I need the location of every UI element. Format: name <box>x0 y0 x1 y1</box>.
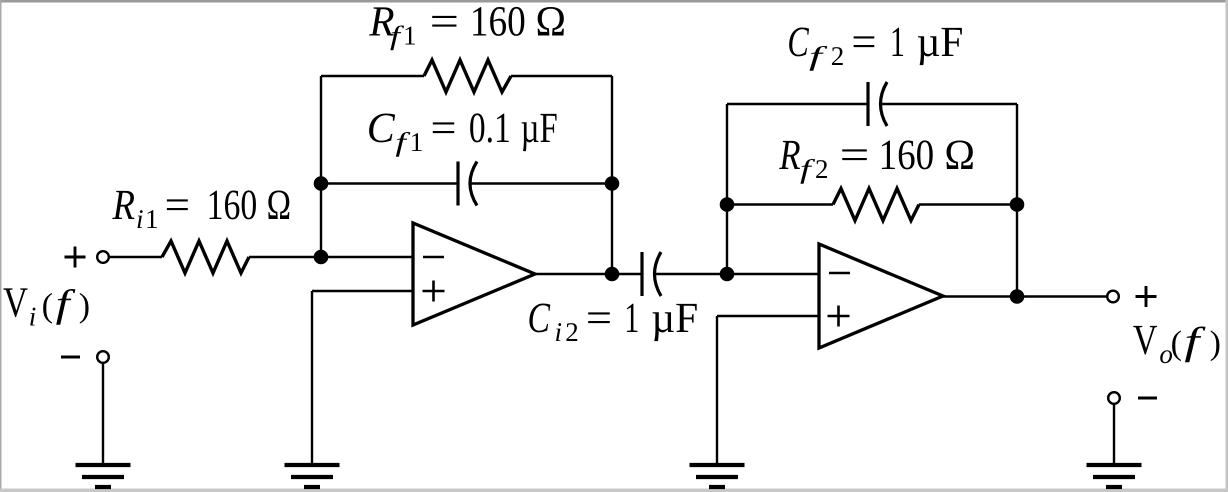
svg-text:=: = <box>165 182 190 229</box>
svg-text:=: = <box>851 19 876 66</box>
svg-text:1: 1 <box>145 204 159 234</box>
label Ci2 = 1 uF <box>528 295 699 347</box>
svg-text:(: ( <box>42 288 53 325</box>
terminal circle output minus <box>1108 392 1120 404</box>
svg-text:2: 2 <box>815 154 829 184</box>
wire input rail to op-amp <box>249 256 414 258</box>
terminal circle input minus <box>97 351 109 363</box>
wire feedback1 mid right segment <box>471 182 613 184</box>
svg-text:µF: µF <box>651 295 698 342</box>
wire feedback2 mid left segment <box>727 203 833 205</box>
label Rf1 = 160 Ohm <box>368 0 566 51</box>
terminal circle input plus <box>97 251 109 263</box>
op-amp U2 <box>819 244 943 348</box>
wire feedback1 top left segment <box>321 75 424 77</box>
wire Ci2 to op2 <box>655 273 819 275</box>
svg-text:V: V <box>3 280 28 327</box>
node junction dot G (feedback2 right mid) <box>1010 197 1025 212</box>
svg-text:µF: µF <box>521 105 558 152</box>
wire feedback1 right vertical <box>611 76 613 274</box>
svg-text:i: i <box>29 302 37 332</box>
label Cf1 = 0.1 uF <box>367 105 558 157</box>
node junction dot A (feedback1 left mid) <box>314 176 329 191</box>
ground G2 (op1 noninverting) <box>285 465 340 487</box>
svg-text:1: 1 <box>403 21 417 51</box>
border frame bottom <box>0 489 1228 492</box>
wire input minus stub <box>102 364 104 464</box>
wire feedback2 top left segment <box>727 103 868 105</box>
svg-text:=: = <box>430 0 459 46</box>
ground G3 (op2 noninverting) <box>690 465 745 487</box>
wire feedback2 mid right segment <box>919 203 1017 205</box>
node junction dot F (op2 inverting input rail) <box>720 267 735 282</box>
terminal circle output plus <box>1107 291 1119 303</box>
wire op2 noninverting vertical to ground <box>716 316 718 464</box>
wire op2 noninverting input horizontal <box>717 315 819 317</box>
ground G4 (output) <box>1087 465 1142 487</box>
label Cf2 = 1 uF <box>787 19 963 71</box>
wire feedback2 top right segment <box>881 103 1017 105</box>
op-amp U1 minus sign <box>423 256 444 259</box>
svg-text:C: C <box>367 105 396 152</box>
wire op2 output rail <box>943 295 1107 297</box>
svg-text:0.1: 0.1 <box>469 105 511 152</box>
svg-text:Ω: Ω <box>944 132 975 179</box>
border frame top <box>0 0 1228 3</box>
svg-text:Ω: Ω <box>267 182 291 229</box>
node junction dot D (op1 output) <box>605 267 620 282</box>
capacitor Cf1 right curved plate <box>470 162 477 206</box>
svg-text:i: i <box>136 204 144 234</box>
capacitor Cf2 left plate <box>866 82 869 126</box>
svg-text:C: C <box>528 295 552 342</box>
svg-text:R: R <box>112 182 135 229</box>
svg-text:V: V <box>1133 317 1158 364</box>
resistor Rf1 <box>424 60 511 92</box>
wire feedback2 right vertical <box>1016 104 1018 297</box>
svg-text:=: = <box>840 132 870 179</box>
wire feedback1 top right segment <box>511 75 612 77</box>
op-amp U2 minus sign <box>829 272 850 275</box>
svg-text:=: = <box>431 105 457 152</box>
op-amp U1 <box>413 223 535 325</box>
svg-text:(: ( <box>1171 325 1182 362</box>
op-amp U1 plus sign <box>423 281 445 302</box>
wire op1 noninverting input horizontal <box>312 290 414 292</box>
capacitor Ci2 right curved plate <box>655 252 662 296</box>
svg-text:160: 160 <box>207 182 258 229</box>
capacitor Cf1 left plate <box>456 162 459 206</box>
border frame right <box>1226 0 1228 492</box>
svg-text:R: R <box>779 132 801 179</box>
svg-text:C: C <box>787 19 809 66</box>
svg-text:1: 1 <box>890 19 905 66</box>
svg-text:1: 1 <box>410 127 424 157</box>
wire input rail left <box>110 256 163 258</box>
wire output minus stub <box>1113 405 1115 464</box>
wire op1 output rail <box>535 273 642 275</box>
resistor Ri1 <box>162 241 249 273</box>
label Ri1 = 160 Ohm <box>112 182 291 234</box>
label Rf2 = 160 Ohm <box>779 132 975 184</box>
svg-text:): ) <box>79 288 90 325</box>
svg-text:1: 1 <box>624 295 639 342</box>
input plus sign <box>65 247 86 268</box>
capacitor Ci2 left plate <box>640 252 643 296</box>
svg-text:160: 160 <box>879 132 935 179</box>
output plus sign <box>1136 286 1157 307</box>
svg-text:=: = <box>586 295 612 342</box>
capacitor Cf2 right curved plate <box>881 82 888 126</box>
op-amp U2 plus sign <box>828 306 850 327</box>
svg-text:2: 2 <box>831 41 845 71</box>
svg-text:Ω: Ω <box>536 0 567 46</box>
output minus sign <box>1138 397 1157 400</box>
wire op1 noninverting vertical to ground <box>311 291 313 464</box>
label Vi(f) <box>3 280 90 332</box>
node junction dot C (feedback1 right mid) <box>605 176 620 191</box>
border frame left <box>0 0 2 492</box>
input minus sign <box>61 356 80 359</box>
svg-text:160: 160 <box>470 0 526 46</box>
ground G1 (input) <box>76 465 131 487</box>
node junction dot H (op2 output) <box>1010 289 1025 304</box>
resistor Rf2 <box>833 189 919 221</box>
wire feedback2 left vertical <box>726 104 728 274</box>
node junction dot B (input rail / feedback1) <box>314 250 329 265</box>
node junction dot E (feedback2 left mid) <box>720 197 735 212</box>
svg-text:2: 2 <box>565 317 579 347</box>
wire feedback1 mid left segment <box>321 182 458 184</box>
svg-text:i: i <box>555 317 563 347</box>
wire feedback1 left vertical <box>320 76 322 257</box>
label Vo(f) <box>1133 317 1221 369</box>
svg-text:): ) <box>1210 325 1221 362</box>
svg-text:µF: µF <box>917 19 964 66</box>
